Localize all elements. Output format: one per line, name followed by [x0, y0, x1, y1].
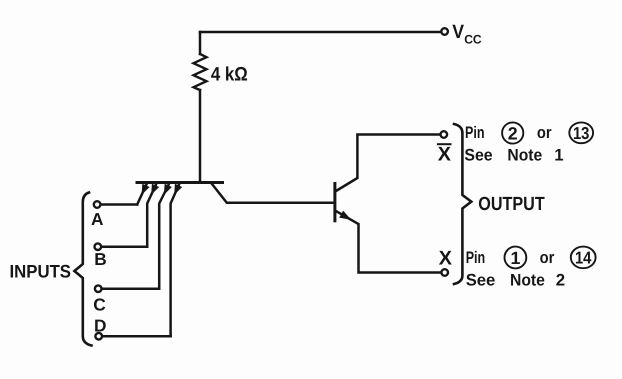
svg-text:Pin: Pin [466, 248, 486, 267]
terminal input C [95, 285, 102, 292]
terminal output X [441, 269, 448, 276]
arrow emitter 3 [164, 184, 172, 195]
svg-text:2: 2 [508, 124, 518, 144]
wire base lead lower (resistor to Q1 base bar) [199, 90, 202, 182]
svg-text:4 kΩ: 4 kΩ [211, 64, 248, 86]
svg-text:1: 1 [510, 248, 520, 268]
svg-text:2: 2 [556, 271, 565, 290]
svg-text:See: See [464, 145, 492, 164]
svg-text:See: See [466, 271, 496, 290]
svg-text:1: 1 [554, 145, 563, 164]
arrow Q2 emitter [339, 211, 351, 220]
svg-text:OUTPUT: OUTPUT [478, 194, 545, 215]
brace INPUTS [74, 193, 91, 346]
transistor Q1 emitter 4 [171, 184, 180, 336]
arrow emitter 2 [151, 184, 159, 195]
transistor Q2 collector [336, 135, 439, 192]
wire input D [103, 335, 171, 338]
svg-text:or: or [537, 123, 552, 142]
transistor Q1 collector [212, 184, 333, 203]
wire base lead upper (corner to resistor) [199, 32, 202, 54]
wire input C [103, 287, 160, 290]
resistor R1 4 kOhm [194, 54, 207, 90]
brace OUTPUT [454, 124, 471, 284]
terminal input D [95, 333, 102, 340]
svg-text:INPUTS: INPUTS [10, 261, 72, 281]
svg-text:C: C [93, 294, 105, 314]
svg-text:X: X [438, 143, 452, 165]
terminal input B [95, 243, 102, 250]
svg-text:B: B [94, 249, 106, 269]
label Xbar [437, 143, 452, 165]
svg-text:A: A [91, 209, 104, 229]
wire input B [102, 245, 147, 248]
transistor Q1 emitter 2 [147, 184, 156, 247]
svg-text:D: D [94, 316, 106, 336]
svg-text:Note: Note [510, 271, 545, 290]
pin number 13 circled [569, 122, 593, 143]
svg-text:or: or [540, 248, 555, 267]
terminal Vcc [441, 28, 448, 35]
terminal input A [94, 201, 101, 208]
svg-text:V: V [452, 22, 464, 43]
wire input A [101, 203, 137, 206]
transistor Q1 emitter 1 [137, 184, 146, 205]
svg-text:14: 14 [575, 248, 592, 268]
pin number 1 circled [505, 247, 527, 269]
pin number 2 circled [502, 122, 523, 143]
svg-text:13: 13 [573, 123, 590, 143]
transistor Q1 base bar (multi-emitter input transistor) [137, 181, 223, 184]
transistor Q2 emitter [336, 211, 440, 272]
label Vcc [452, 22, 482, 46]
wire Vcc rail [200, 31, 440, 34]
arrow emitter 1 [142, 184, 150, 195]
svg-text:CC: CC [464, 32, 482, 46]
svg-text:Note: Note [507, 145, 542, 164]
transistor Q1 emitter 3 [159, 184, 169, 289]
arrow emitter 4 [174, 184, 182, 195]
svg-text:Pin: Pin [465, 123, 485, 142]
transistor Q2 base bar [333, 184, 336, 221]
svg-text:X: X [439, 247, 453, 269]
pin number 14 circled [571, 247, 596, 269]
terminal output Xbar [441, 131, 448, 138]
